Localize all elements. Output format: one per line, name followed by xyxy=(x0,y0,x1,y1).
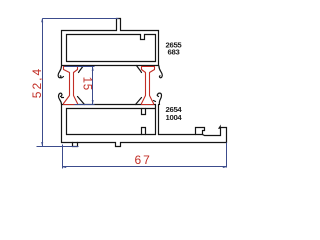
claw hook bottom-right xyxy=(157,93,161,104)
dim 67 extension line right xyxy=(226,143,228,168)
svg-text:67: 67 xyxy=(135,153,152,167)
divider wall inner line xyxy=(155,105,157,135)
arrow 52.4 top xyxy=(41,18,43,22)
claw hook top-left xyxy=(58,66,61,78)
claw bottom-left tail xyxy=(62,97,64,99)
hook1 on flange xyxy=(196,128,205,135)
hook2 pointed lip xyxy=(219,126,221,129)
groove wall right of left strut xyxy=(79,66,84,73)
lower profile inner contour xyxy=(67,109,156,135)
arrow 52.4 bottom xyxy=(41,142,43,146)
groove wall right of left strut foot xyxy=(78,97,85,105)
screw channel upper stub xyxy=(142,109,146,115)
dim 52.4 vertical line xyxy=(42,19,44,147)
arrow 15 bottom xyxy=(92,100,94,104)
dim 15 extension line top xyxy=(65,66,95,68)
arrow 67 left xyxy=(62,166,66,168)
dim 52.4 extension line bottom xyxy=(37,146,79,148)
thermal break strut right (I-beam) xyxy=(142,67,155,105)
arrow 15 top xyxy=(92,66,94,70)
dim 15 extension line bottom xyxy=(75,104,95,106)
svg-text:1004: 1004 xyxy=(166,113,183,122)
claw hook top-right xyxy=(159,66,162,78)
dim 67 extension line left xyxy=(62,145,64,169)
bottom edge segment over foot1 xyxy=(73,142,78,144)
screw channel lower stub xyxy=(142,128,146,135)
svg-text:52,4: 52,4 xyxy=(30,67,44,98)
svg-text:683: 683 xyxy=(168,47,180,56)
dim 15 vertical line xyxy=(92,67,94,105)
upper profile outer contour with top tab xyxy=(62,19,159,66)
arrow 67 right xyxy=(223,166,227,168)
dim 52.4 extension line top xyxy=(43,18,119,20)
claw bottom-right tail xyxy=(154,101,156,102)
lower inner bottom edge xyxy=(67,134,156,136)
upper profile inner contour with screw notch xyxy=(67,35,156,62)
claw hook top-left tail xyxy=(61,77,64,78)
groove wall left of right strut foot xyxy=(136,98,142,105)
divider wall outer line xyxy=(158,105,160,135)
lower profile top edge xyxy=(62,104,156,106)
claw hook bottom-left xyxy=(59,93,62,104)
dim 67 horizontal line xyxy=(63,166,227,168)
groove wall left of right strut xyxy=(137,66,142,73)
lower profile outer contour: left wall, bottom with feet, right flange with hooks xyxy=(62,105,227,147)
svg-text:15: 15 xyxy=(81,77,93,91)
thermal break strut left (I-beam) xyxy=(64,67,78,105)
